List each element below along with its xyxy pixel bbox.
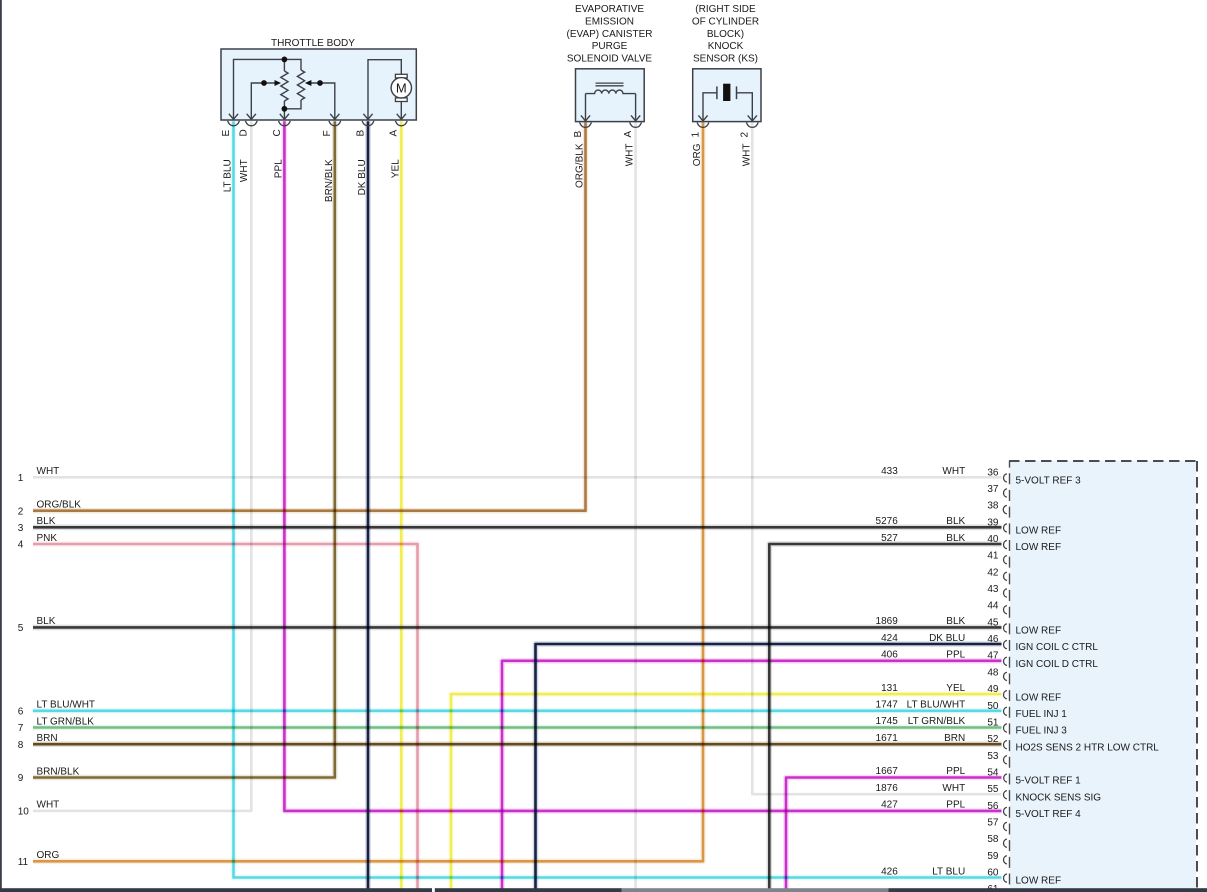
svg-text:60: 60	[987, 868, 999, 879]
svg-text:59: 59	[987, 851, 999, 862]
ECM pin 51 terminal	[1004, 724, 1007, 732]
svg-text:FUEL INJ 1: FUEL INJ 1	[1016, 709, 1068, 720]
connector terminal TB pin D	[245, 121, 257, 126]
wire 1745 LT GRN/BLK row7 to pin51	[33, 725, 1002, 731]
svg-text:1: 1	[690, 132, 701, 138]
wire 1671 BRN row8 to pin52	[33, 741, 1002, 747]
wire 433 WHT row1 to pin36	[33, 476, 1002, 479]
svg-text:50: 50	[987, 701, 999, 712]
arrow into connector EVAP pin A	[631, 115, 640, 121]
svg-text:YEL: YEL	[946, 683, 965, 694]
svg-text:424: 424	[881, 633, 898, 644]
svg-text:LT GRN/BLK: LT GRN/BLK	[908, 716, 966, 727]
throttle body box	[221, 49, 416, 120]
ECM pin 58 terminal	[1004, 839, 1007, 847]
wire 426 LT BLU TB E to pin60	[234, 121, 1002, 877]
svg-text:406: 406	[881, 650, 898, 661]
svg-text:BRN/BLK: BRN/BLK	[37, 766, 80, 777]
wire motor supply (pin B)	[368, 60, 401, 120]
svg-text:IGN COIL C CTRL: IGN COIL C CTRL	[1016, 642, 1099, 653]
arrow into connector TB pin D	[247, 114, 256, 120]
wire ORG row11 to KS 1	[33, 123, 703, 862]
svg-text:KNOCK: KNOCK	[708, 41, 744, 52]
ECM pin 47 terminal	[1004, 657, 1007, 665]
wire PNK row4 down	[33, 544, 418, 889]
ECM pin 55 terminal	[1004, 791, 1007, 799]
ECM pin 56 terminal	[1004, 807, 1007, 815]
svg-text:SOLENOID VALVE: SOLENOID VALVE	[567, 53, 653, 64]
arrow into connector KS pin 1	[698, 115, 707, 121]
arrow into connector TB pin B	[363, 114, 372, 120]
svg-text:LT BLU/WHT: LT BLU/WHT	[37, 700, 96, 711]
wire BRN/BLK row9 to TB F	[33, 121, 335, 777]
svg-text:FUEL INJ 3: FUEL INJ 3	[1016, 726, 1068, 737]
svg-text:5-VOLT REF 4: 5-VOLT REF 4	[1016, 809, 1082, 820]
connector terminal TB pin F	[329, 121, 341, 126]
svg-text:BRN: BRN	[37, 733, 58, 744]
svg-text:BLK: BLK	[37, 616, 56, 627]
svg-text:38: 38	[987, 501, 999, 512]
svg-text:BLK: BLK	[946, 516, 965, 527]
junction wiper2 node	[317, 80, 323, 86]
wiper 1 (pin D)	[251, 83, 275, 120]
left window border	[0, 0, 2, 892]
ECM pin 39 terminal	[1004, 524, 1007, 532]
svg-text:40: 40	[987, 534, 999, 545]
svg-text:E: E	[221, 130, 232, 137]
wire YEL TB A down	[398, 121, 404, 889]
ECM pin 45 terminal	[1004, 624, 1007, 632]
arrow into connector KS pin 2	[748, 115, 757, 121]
svg-text:5-VOLT REF 3: 5-VOLT REF 3	[1016, 476, 1082, 487]
svg-text:WHT: WHT	[625, 144, 636, 167]
ECM pin 53 terminal	[1004, 756, 1007, 764]
svg-text:41: 41	[987, 551, 999, 562]
wire 1876 WHT KS2 to pin55	[752, 123, 1001, 795]
svg-text:WHT: WHT	[942, 783, 965, 794]
svg-text:LT GRN/BLK: LT GRN/BLK	[37, 716, 95, 727]
ECM pin 61 terminal	[1004, 889, 1007, 892]
svg-text:IGN COIL D CTRL: IGN COIL D CTRL	[1016, 659, 1099, 670]
connector terminal EVAP pin B	[580, 123, 592, 128]
svg-text:6: 6	[18, 706, 24, 717]
svg-text:WHT: WHT	[37, 466, 60, 477]
svg-text:1671: 1671	[876, 733, 899, 744]
svg-text:131: 131	[881, 683, 898, 694]
wire 424 DK BLU to pin46	[536, 644, 1002, 889]
arrow into connector TB pin F	[330, 114, 339, 120]
svg-text:PURGE: PURGE	[592, 41, 628, 52]
svg-text:LOW REF: LOW REF	[1016, 876, 1062, 887]
svg-text:DK BLU: DK BLU	[929, 633, 965, 644]
connector terminal TB pin E	[228, 121, 240, 126]
ECM pin 49 terminal	[1004, 691, 1007, 699]
svg-text:PPL: PPL	[946, 800, 965, 811]
svg-text:BLK: BLK	[37, 516, 56, 527]
ECM pin 42 terminal	[1004, 572, 1007, 580]
svg-text:EVAPORATIVE: EVAPORATIVE	[575, 4, 644, 15]
svg-text:52: 52	[987, 734, 999, 745]
svg-text:527: 527	[881, 533, 898, 544]
connector terminal TB pin C	[279, 121, 291, 126]
svg-text:58: 58	[987, 834, 999, 845]
ECM pin 46 terminal	[1004, 640, 1007, 648]
ECM pin 52 terminal	[1004, 741, 1007, 749]
svg-text:5: 5	[18, 623, 24, 634]
svg-text:1747: 1747	[876, 700, 899, 711]
ECM pin 43 terminal	[1004, 589, 1007, 597]
wire 427 PPL TB C to pin56	[284, 121, 1001, 811]
ECM connector box C2	[1010, 461, 1196, 892]
svg-text:42: 42	[987, 567, 999, 578]
knock sensor box	[693, 69, 761, 122]
connector terminal KS pin 2	[746, 123, 758, 128]
wire 1869 BLK row5 to pin45	[33, 625, 1002, 631]
svg-text:47: 47	[987, 651, 999, 662]
svg-text:46: 46	[987, 634, 999, 645]
svg-text:M: M	[396, 80, 407, 95]
svg-text:B: B	[573, 131, 584, 138]
svg-text:D: D	[239, 129, 250, 136]
svg-text:49: 49	[987, 684, 999, 695]
wire coil leads	[585, 94, 587, 121]
svg-text:54: 54	[987, 768, 999, 779]
wire bottom rail	[284, 100, 301, 109]
svg-text:43: 43	[987, 584, 999, 595]
svg-text:1876: 1876	[876, 783, 899, 794]
svg-text:BLK: BLK	[946, 616, 965, 627]
svg-text:SENSOR (KS): SENSOR (KS)	[693, 53, 758, 64]
solenoid coil L1	[586, 90, 636, 94]
ECM pin 50 terminal	[1004, 707, 1007, 715]
svg-text:WHT: WHT	[942, 466, 965, 477]
svg-text:F: F	[322, 130, 333, 136]
svg-text:ORG: ORG	[37, 850, 60, 861]
ECM pin 36 terminal	[1004, 474, 1007, 482]
wire DK BLU TB B down	[365, 121, 371, 889]
svg-text:53: 53	[987, 751, 999, 762]
svg-text:BLK: BLK	[946, 533, 965, 544]
EVAP solenoid box	[576, 69, 645, 122]
ECM pin 54 terminal	[1004, 774, 1007, 782]
motor M1	[395, 74, 407, 78]
ECM pin 40 terminal	[1004, 540, 1007, 548]
svg-text:A: A	[389, 130, 400, 137]
svg-text:EMISSION: EMISSION	[585, 17, 634, 28]
svg-text:OF CYLINDER: OF CYLINDER	[692, 17, 759, 28]
svg-text:4: 4	[18, 540, 24, 551]
resistor TPS element 1	[283, 59, 285, 71]
svg-text:51: 51	[987, 717, 999, 728]
svg-text:BLOCK): BLOCK)	[707, 29, 744, 40]
ECM pin 37 terminal	[1004, 489, 1007, 497]
svg-text:45: 45	[987, 617, 999, 628]
wire 131 YEL to pin49	[451, 694, 1002, 889]
ECM pin 57 terminal	[1004, 822, 1007, 830]
coil core lines	[596, 82, 624, 84]
svg-text:426: 426	[881, 866, 898, 877]
svg-text:48: 48	[987, 667, 999, 678]
wire WHT row10 to TB D	[33, 121, 251, 811]
svg-text:5276: 5276	[876, 516, 899, 527]
svg-text:LT BLU/WHT: LT BLU/WHT	[907, 700, 966, 711]
svg-text:(RIGHT SIDE: (RIGHT SIDE	[695, 4, 756, 15]
svg-text:LOW REF: LOW REF	[1016, 692, 1062, 703]
svg-text:C: C	[272, 129, 283, 136]
svg-text:WHT: WHT	[741, 144, 752, 167]
arrow into connector TB pin A	[397, 114, 406, 120]
svg-text:LT BLU: LT BLU	[932, 866, 965, 877]
resistor TPS element 2	[297, 70, 304, 100]
bottom bar	[0, 888, 432, 892]
ECM pin 38 terminal	[1003, 505, 1007, 514]
svg-text:LOW REF: LOW REF	[1016, 626, 1062, 637]
arrow into connector TB pin E	[229, 114, 238, 120]
svg-text:56: 56	[987, 801, 999, 812]
wire motor to pin A	[400, 102, 402, 120]
svg-text:A: A	[623, 131, 634, 138]
svg-text:5-VOLT REF 1: 5-VOLT REF 1	[1016, 776, 1082, 787]
svg-text:1: 1	[18, 473, 24, 484]
svg-text:39: 39	[987, 517, 999, 528]
svg-text:PNK: PNK	[37, 533, 58, 544]
svg-text:433: 433	[881, 466, 898, 477]
svg-text:KNOCK SENS SIG: KNOCK SENS SIG	[1016, 792, 1102, 803]
wiper 2 (pin F)	[311, 83, 335, 120]
ECM pin 60 terminal	[1004, 874, 1007, 882]
svg-text:LOW REF: LOW REF	[1016, 542, 1062, 553]
svg-text:HO2S SENS 2 HTR LOW CTRL: HO2S SENS 2 HTR LOW CTRL	[1016, 742, 1160, 753]
svg-text:11: 11	[18, 857, 29, 868]
connector terminal KS pin 1	[697, 123, 709, 128]
svg-text:1869: 1869	[876, 616, 899, 627]
wire 406 PPL to pin47	[502, 661, 1002, 889]
arrow into connector TB pin C	[280, 114, 289, 120]
wire 1747 LT BLU/WHT row6 to pin50	[33, 708, 1002, 714]
connector terminal EVAP pin A	[630, 123, 642, 128]
ECM pin 48 terminal	[1004, 672, 1007, 680]
wire ORG/BLK row2 to EVAP B	[33, 123, 586, 511]
svg-text:PPL: PPL	[946, 650, 965, 661]
connector terminal TB pin A	[395, 121, 407, 126]
svg-text:10: 10	[18, 807, 30, 818]
junction TPS top node	[282, 57, 288, 63]
arrow into connector EVAP pin B	[581, 115, 590, 121]
svg-text:9: 9	[18, 773, 24, 784]
wire 527 BLK to pin40	[769, 544, 1001, 889]
svg-text:37: 37	[987, 484, 999, 495]
svg-text:8: 8	[18, 740, 24, 751]
svg-text:PPL: PPL	[946, 766, 965, 777]
svg-text:1745: 1745	[876, 716, 899, 727]
svg-text:427: 427	[881, 800, 898, 811]
svg-text:2: 2	[740, 132, 751, 138]
ECM pin 44 terminal	[1004, 606, 1007, 614]
svg-text:BRN: BRN	[944, 733, 965, 744]
svg-text:WHT: WHT	[239, 159, 250, 182]
node top rail TPS	[234, 59, 302, 119]
svg-text:(EVAP) CANISTER: (EVAP) CANISTER	[567, 29, 653, 40]
svg-text:B: B	[355, 130, 366, 137]
svg-text:THROTTLE BODY: THROTTLE BODY	[271, 38, 355, 49]
wire WHT EVAP A down	[634, 123, 637, 890]
ECM pin 41 terminal	[1004, 556, 1007, 564]
ECM pin 59 terminal	[1004, 856, 1007, 864]
svg-text:57: 57	[987, 818, 999, 829]
svg-text:7: 7	[18, 723, 24, 734]
svg-text:WHT: WHT	[37, 800, 60, 811]
svg-text:2: 2	[18, 506, 24, 517]
svg-text:3: 3	[18, 523, 24, 534]
svg-text:44: 44	[987, 601, 999, 612]
svg-text:1667: 1667	[876, 766, 899, 777]
wire 1667 PPL to pin54	[786, 778, 1002, 890]
wire 5276 BLK row3 to pin39	[33, 524, 1002, 530]
junction wiper1 node	[261, 80, 267, 86]
svg-text:55: 55	[987, 784, 999, 795]
svg-text:LOW REF: LOW REF	[1016, 526, 1062, 537]
knock sensor element	[703, 93, 717, 121]
svg-text:36: 36	[987, 467, 999, 478]
junction TPS bottom node	[282, 106, 288, 112]
connector terminal TB pin B	[362, 121, 374, 126]
svg-text:ORG/BLK: ORG/BLK	[37, 500, 82, 511]
